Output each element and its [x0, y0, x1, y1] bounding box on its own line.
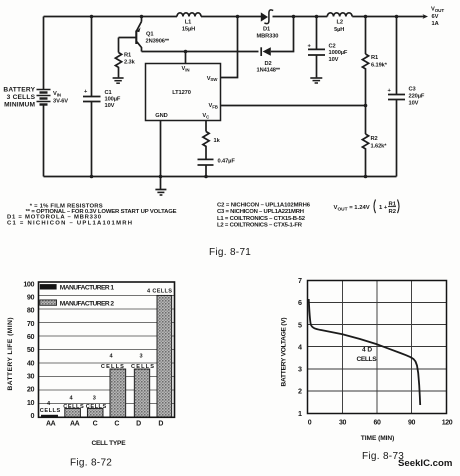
- svg-text:10V: 10V: [105, 103, 115, 109]
- node: top rail / C1 junction: [90, 15, 94, 19]
- svg-text:10: 10: [27, 398, 35, 407]
- bar chart: gridlines: [39, 296, 175, 404]
- label C3 220uF 10V: [409, 87, 425, 107]
- svg-text:VSW: VSW: [207, 76, 219, 82]
- node: top rail / D2 bootstrap junction: [292, 15, 296, 19]
- svg-text:C2: C2: [329, 44, 336, 50]
- watermark SeekIC.com: [398, 458, 452, 469]
- svg-text:3 CELLS: 3 CELLS: [7, 94, 36, 101]
- svg-text:2N3906**: 2N3906**: [146, 39, 170, 45]
- battery B1 (3 cells): [37, 17, 51, 177]
- svg-text:TIME (MIN): TIME (MIN): [361, 435, 395, 442]
- svg-text:D: D: [136, 421, 141, 428]
- caption Fig. 8-72: [70, 458, 112, 469]
- svg-text:Fig. 8-72: Fig. 8-72: [70, 458, 112, 469]
- svg-text:CELL TYPE: CELL TYPE: [92, 440, 127, 447]
- legend: manufacturer 1: [40, 284, 115, 292]
- svg-text:R1: R1: [371, 55, 378, 61]
- svg-text:L1: L1: [185, 19, 191, 25]
- svg-text:80: 80: [27, 306, 35, 315]
- wire: VSW vertical from top rail down to VSW pin: [221, 17, 238, 78]
- svg-text:CELLS: CELLS: [63, 404, 84, 410]
- inductor L2 5uH: [327, 13, 352, 17]
- node: top rail / Q1 emitter junction: [140, 15, 144, 19]
- svg-text:3: 3: [139, 354, 142, 360]
- svg-text:20: 20: [27, 385, 35, 394]
- wire: VOUT arrow: [397, 14, 429, 19]
- svg-text:0: 0: [308, 420, 312, 427]
- svg-text:MBR330: MBR330: [257, 33, 279, 39]
- svg-text:4: 4: [69, 395, 73, 401]
- wire: Q1 collector to VIN node to D2 cathode: [142, 51, 259, 53]
- svg-text:6V: 6V: [432, 14, 439, 20]
- svg-text:BATTERY LIFE (MIN): BATTERY LIFE (MIN): [7, 318, 14, 391]
- svg-text:CELLS: CELLS: [40, 408, 61, 414]
- svg-text:1000µF: 1000µF: [329, 50, 348, 56]
- label 1k: [214, 138, 221, 144]
- svg-text:90: 90: [27, 293, 35, 302]
- caption Fig. 8-73: [362, 451, 404, 462]
- svg-text:3V-6V: 3V-6V: [53, 99, 68, 105]
- inductor L1 15uH: [177, 13, 201, 17]
- svg-text:10V: 10V: [409, 101, 419, 107]
- curve: 4 D cells discharge: [309, 299, 421, 405]
- node: C1 / rail junction: [90, 175, 94, 179]
- svg-text:AA: AA: [70, 421, 80, 428]
- svg-text:R1: R1: [124, 53, 131, 59]
- svg-text:LT1270: LT1270: [172, 90, 191, 96]
- node: VOUT rail / R1 junction: [364, 15, 368, 19]
- svg-text:2.3k: 2.3k: [124, 60, 136, 66]
- diode D2 1N4148: [261, 17, 293, 57]
- svg-text:4: 4: [298, 342, 302, 351]
- svg-text:D1: D1: [263, 27, 270, 33]
- svg-text:BATTERY VOLTAGE (V): BATTERY VOLTAGE (V): [281, 318, 288, 387]
- wire: top rail D1 cathode to C2 node: [273, 16, 328, 18]
- capacitor C2 1000uF 10V: [308, 17, 326, 78]
- svg-text:6: 6: [298, 298, 302, 307]
- svg-text:1N4148**: 1N4148**: [257, 68, 281, 74]
- svg-text:L1 = COILTRONICS – CTX15-B-52: L1 = COILTRONICS – CTX15-B-52: [217, 216, 306, 222]
- wire: VFB pin to divider junction: [221, 105, 366, 107]
- legend: manufacturer 2: [40, 300, 115, 308]
- svg-text:VIN: VIN: [182, 66, 190, 72]
- svg-text:VIN: VIN: [53, 91, 61, 97]
- svg-text:CELLS: CELLS: [101, 364, 124, 370]
- svg-text:+: +: [388, 88, 392, 94]
- svg-text:MINIMUM: MINIMUM: [4, 102, 35, 109]
- bar: Mfr2 D 4 cells: [157, 295, 172, 417]
- resistor R2 1.62k: [362, 106, 368, 177]
- label D1 MBR330: [257, 27, 279, 40]
- svg-text:GND: GND: [155, 113, 167, 119]
- label R2 1.62k*: [371, 136, 388, 150]
- y-axis tick labels (battery life): [23, 279, 34, 420]
- svg-text:VFB: VFB: [209, 103, 218, 109]
- svg-text:BATTERY: BATTERY: [3, 87, 35, 94]
- bar: Mfr2 D 3 cells: [134, 369, 149, 417]
- svg-text:MANUFACTURER 1: MANUFACTURER 1: [60, 285, 115, 292]
- wire: top rail L1 to D1 anode: [201, 16, 262, 18]
- x-axis tick labels (cell type): [46, 421, 163, 428]
- label VOUT 6V 1A: [431, 7, 444, 28]
- bar: Mfr1 AA 4 cells: [41, 415, 58, 418]
- transistor Q1 2N3906 (PNP): [119, 17, 142, 52]
- svg-text:1A: 1A: [432, 21, 439, 27]
- bar: Mfr2 C 3 cells: [87, 409, 103, 418]
- resistor 1k (VC compensation): [203, 132, 209, 147]
- node: VC branch / rail junction: [204, 175, 208, 179]
- bar: Mfr2 C 4 cells: [110, 369, 126, 417]
- node: GND / rail junction: [159, 175, 163, 179]
- svg-text:3: 3: [93, 395, 96, 401]
- label C2 1000uF 10V: [329, 44, 348, 64]
- wire: VIN node down to LT1270 VIN pin: [185, 52, 187, 64]
- caption Fig. 8-71: [209, 247, 251, 258]
- x-axis title CELL TYPE: [92, 440, 127, 447]
- ground rail (bottom): [44, 176, 397, 178]
- svg-text:100µF: 100µF: [105, 97, 121, 103]
- notes: right column: [217, 203, 311, 229]
- svg-text:70: 70: [27, 319, 35, 328]
- resistor R1 6.19k: [362, 17, 368, 106]
- svg-text:220µF: 220µF: [409, 94, 425, 100]
- svg-text:CELLS: CELLS: [131, 364, 154, 370]
- svg-text:Fig. 8-71: Fig. 8-71: [209, 247, 251, 258]
- svg-text:3: 3: [298, 365, 302, 374]
- svg-text:1: 1: [298, 409, 302, 418]
- svg-text:4 D: 4 D: [362, 347, 372, 354]
- bar label: 4 CELLS (bar 4): [101, 354, 124, 370]
- svg-text:40: 40: [27, 358, 35, 367]
- capacitor 0.47uF (VC compensation): [198, 147, 214, 177]
- svg-text:C: C: [114, 421, 119, 428]
- ground (below R1 2.3k): [113, 71, 124, 84]
- svg-text:10V: 10V: [329, 57, 339, 63]
- resistor R1 2.3k: [115, 38, 121, 71]
- equation VOUT = 1.24V (1 + R1/R2): [334, 200, 400, 216]
- capacitor C3 220uF 10V: [388, 17, 406, 177]
- svg-text:SeekIC.com: SeekIC.com: [398, 458, 452, 469]
- svg-text:VOUT = 1.24V: VOUT = 1.24V: [334, 205, 370, 212]
- label D2 1N4148**: [257, 61, 281, 74]
- diode D1 MBR330 (Schottky): [261, 10, 273, 24]
- svg-text:C1: C1: [105, 90, 112, 96]
- svg-text:0.47µF: 0.47µF: [218, 159, 236, 165]
- svg-text:100: 100: [23, 279, 34, 288]
- svg-text:15µH: 15µH: [182, 26, 195, 32]
- svg-text:VC: VC: [202, 113, 210, 119]
- svg-text:6.19k*: 6.19k*: [371, 63, 388, 69]
- label C1 100uF 10V: [105, 90, 121, 109]
- label L2 5uH: [334, 20, 344, 33]
- svg-text:AA: AA: [46, 421, 56, 428]
- node: VIN junction on collector wire: [184, 50, 188, 54]
- svg-text:L2: L2: [336, 20, 342, 26]
- y-axis tick labels (battery voltage): [298, 276, 302, 418]
- svg-text:1k: 1k: [214, 138, 221, 144]
- svg-text:4 CELLS: 4 CELLS: [147, 289, 172, 295]
- line chart: plot frame: [308, 281, 447, 414]
- svg-text:D2: D2: [265, 61, 272, 67]
- svg-text:1.62k*: 1.62k*: [371, 144, 388, 150]
- label 4 D CELLS: [357, 347, 378, 364]
- svg-text:30: 30: [339, 420, 346, 427]
- svg-text:60: 60: [374, 420, 381, 427]
- svg-text:0: 0: [30, 411, 34, 420]
- label 0.47uF: [218, 159, 236, 165]
- svg-text:C1 = NICHICON – UPL1A101MRH: C1 = NICHICON – UPL1A101MRH: [7, 220, 132, 226]
- y-axis title BATTERY VOLTAGE (V): [281, 318, 288, 387]
- svg-text:R2: R2: [371, 136, 378, 142]
- wire: GND pin down to ground rail: [160, 121, 162, 177]
- line chart: gridlines: [308, 281, 447, 414]
- node: top rail / VSW junction: [236, 15, 240, 19]
- wire: top rail battery to L1: [44, 16, 178, 18]
- svg-text:R2: R2: [389, 209, 397, 215]
- svg-text:50: 50: [27, 345, 35, 354]
- label R1 6.19k*: [371, 55, 388, 69]
- svg-text:120: 120: [442, 420, 453, 427]
- notes: left column: [7, 203, 177, 226]
- wire: VC pin down: [205, 121, 207, 132]
- svg-text:5µH: 5µH: [334, 27, 344, 33]
- svg-text:5: 5: [298, 320, 302, 329]
- svg-text:+: +: [84, 89, 88, 95]
- svg-text:4: 4: [109, 354, 113, 360]
- node: R2 / rail junction: [364, 175, 368, 179]
- IC U1 LT1270: [146, 64, 221, 121]
- svg-text:90: 90: [408, 420, 415, 427]
- capacitor C1 100uF 10V: [83, 17, 101, 177]
- bar chart: plot frame: [39, 282, 175, 417]
- node: VFB / R1 / R2 junction: [364, 104, 368, 108]
- svg-text:+: +: [308, 43, 312, 49]
- node: VOUT rail / C3 junction: [395, 15, 399, 19]
- svg-text:30: 30: [27, 372, 35, 381]
- svg-text:CELLS: CELLS: [86, 404, 107, 410]
- svg-text:7: 7: [298, 276, 302, 285]
- label Q1 2N3906**: [146, 32, 170, 45]
- label VIN 3V-6V: [53, 91, 68, 105]
- svg-text:Q1: Q1: [146, 32, 153, 38]
- svg-text:CELLS: CELLS: [357, 356, 378, 363]
- svg-text:C: C: [93, 421, 98, 428]
- svg-text:C3: C3: [409, 87, 416, 93]
- bar label: 3 CELLS (bar 3): [86, 395, 107, 410]
- x-axis title TIME (MIN): [361, 435, 395, 442]
- bar label: 4 CELLS (bar 6): [147, 289, 172, 295]
- label R1 2.3k: [124, 53, 136, 66]
- svg-text:C3 = NICHICON – UPL1A221MRH: C3 = NICHICON – UPL1A221MRH: [217, 209, 304, 215]
- svg-text:60: 60: [27, 332, 35, 341]
- wire: L2 right to C3 node: [352, 16, 396, 18]
- label BATTERY 3 CELLS MINIMUM: [3, 87, 35, 109]
- node: top rail / C2 junction: [315, 15, 319, 19]
- bar label: 4 CELLS (bar 2): [63, 395, 84, 410]
- ground (below C2): [310, 78, 322, 83]
- svg-text:C2 = NICHICON – UPL1A102MRH6: C2 = NICHICON – UPL1A102MRH6: [217, 203, 311, 209]
- svg-text:D: D: [158, 421, 163, 428]
- svg-text:VOUT: VOUT: [431, 7, 444, 13]
- bar: Mfr2 AA 4 cells: [65, 409, 81, 418]
- label L1 15uH: [182, 19, 195, 32]
- svg-text:1 +: 1 +: [379, 205, 388, 211]
- x-axis tick labels (time): [308, 420, 453, 427]
- bar label: 3 CELLS (bar 5): [131, 354, 154, 370]
- svg-text:MANUFACTURER 2: MANUFACTURER 2: [60, 300, 115, 307]
- svg-text:2: 2: [298, 387, 302, 396]
- ground (main, below rail): [155, 177, 166, 196]
- bar label: 4 CELLS (bar 1): [40, 401, 61, 414]
- y-axis title BATTERY LIFE (MIN): [7, 318, 14, 391]
- svg-text:L2 = COILTRONICS – CTX5-1-FR: L2 = COILTRONICS – CTX5-1-FR: [217, 223, 303, 229]
